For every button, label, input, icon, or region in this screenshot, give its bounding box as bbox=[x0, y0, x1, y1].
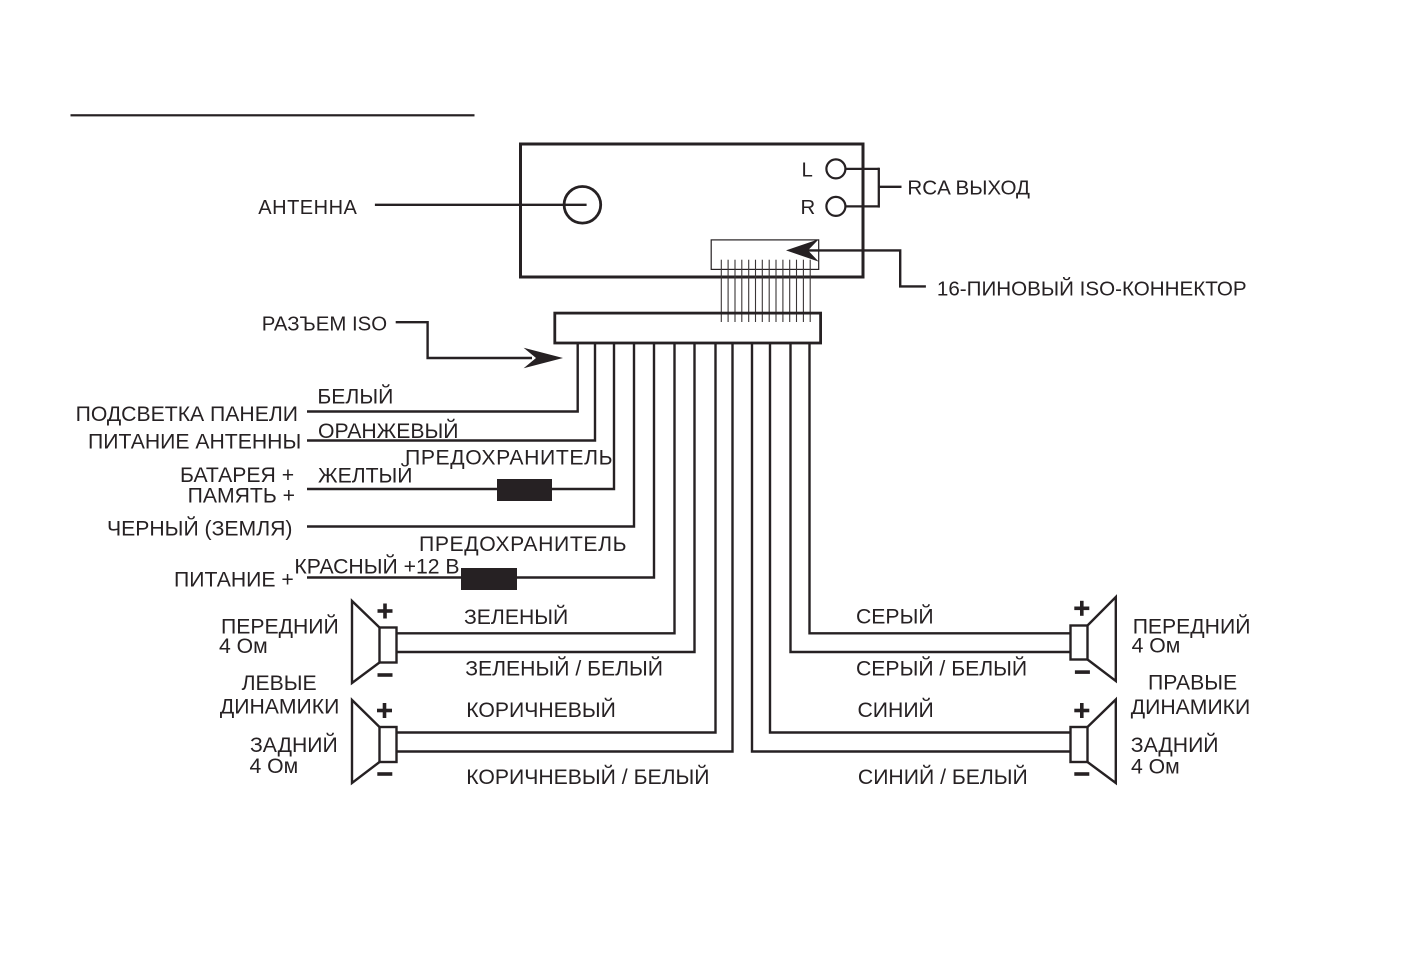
svg-text:ПАМЯТЬ +: ПАМЯТЬ + bbox=[188, 484, 295, 507]
svg-text:КОРИЧНЕВЫЙ: КОРИЧНЕВЫЙ bbox=[466, 697, 616, 722]
svg-text:РАЗЪЕМ ISO: РАЗЪЕМ ISO bbox=[262, 314, 387, 336]
svg-text:ЗАДНИЙ: ЗАДНИЙ bbox=[1131, 732, 1219, 757]
svg-text:L: L bbox=[802, 160, 813, 182]
svg-text:RCA ВЫХОД: RCA ВЫХОД bbox=[907, 176, 1030, 199]
svg-text:БЕЛЫЙ: БЕЛЫЙ bbox=[317, 383, 393, 408]
svg-text:ОРАНЖЕВЫЙ: ОРАНЖЕВЫЙ bbox=[318, 418, 458, 443]
svg-text:ПОДСВЕТКА ПАНЕЛИ: ПОДСВЕТКА ПАНЕЛИ bbox=[76, 403, 298, 426]
svg-text:ПИТАНИЕ +: ПИТАНИЕ + bbox=[174, 569, 294, 592]
svg-text:ДИНАМИКИ: ДИНАМИКИ bbox=[220, 696, 339, 719]
svg-text:ЧЕРНЫЙ (ЗЕМЛЯ): ЧЕРНЫЙ (ЗЕМЛЯ) bbox=[107, 516, 292, 541]
svg-text:4 Ом: 4 Ом bbox=[219, 635, 268, 658]
svg-text:КРАСНЫЙ +12 В: КРАСНЫЙ +12 В bbox=[294, 554, 459, 579]
svg-text:ПИТАНИЕ АНТЕННЫ: ПИТАНИЕ АНТЕННЫ bbox=[88, 430, 301, 453]
svg-text:4 Ом: 4 Ом bbox=[1132, 635, 1181, 658]
svg-text:ПРАВЫЕ: ПРАВЫЕ bbox=[1148, 672, 1237, 695]
svg-text:4 Ом: 4 Ом bbox=[1131, 756, 1180, 779]
svg-text:КОРИЧНЕВЫЙ / БЕЛЫЙ: КОРИЧНЕВЫЙ / БЕЛЫЙ bbox=[466, 764, 709, 789]
svg-text:R: R bbox=[801, 197, 816, 219]
svg-text:ПРЕДОХРАНИТЕЛЬ: ПРЕДОХРАНИТЕЛЬ bbox=[419, 533, 627, 556]
svg-text:ДИНАМИКИ: ДИНАМИКИ bbox=[1131, 696, 1250, 719]
svg-text:ЗЕЛЕНЫЙ: ЗЕЛЕНЫЙ bbox=[464, 604, 568, 629]
svg-text:ЗАДНИЙ: ЗАДНИЙ bbox=[250, 732, 338, 757]
svg-text:ЛЕВЫЕ: ЛЕВЫЕ bbox=[242, 672, 317, 695]
svg-text:ЗЕЛЕНЫЙ / БЕЛЫЙ: ЗЕЛЕНЫЙ / БЕЛЫЙ bbox=[465, 656, 663, 681]
svg-text:ПРЕДОХРАНИТЕЛЬ: ПРЕДОХРАНИТЕЛЬ bbox=[405, 447, 613, 470]
svg-text:СИНИЙ: СИНИЙ bbox=[858, 697, 934, 722]
svg-text:СИНИЙ / БЕЛЫЙ: СИНИЙ / БЕЛЫЙ bbox=[858, 764, 1028, 789]
svg-text:4 Ом: 4 Ом bbox=[250, 755, 299, 778]
svg-text:ЖЕЛТЫЙ: ЖЕЛТЫЙ bbox=[318, 463, 413, 488]
svg-text:СЕРЫЙ: СЕРЫЙ bbox=[856, 603, 934, 628]
svg-text:СЕРЫЙ / БЕЛЫЙ: СЕРЫЙ / БЕЛЫЙ bbox=[856, 656, 1027, 681]
svg-text:16-ПИНОВЫЙ ISO-КОННЕКТОР: 16-ПИНОВЫЙ ISO-КОННЕКТОР bbox=[937, 276, 1247, 300]
svg-text:АНТЕННА: АНТЕННА bbox=[258, 197, 357, 219]
